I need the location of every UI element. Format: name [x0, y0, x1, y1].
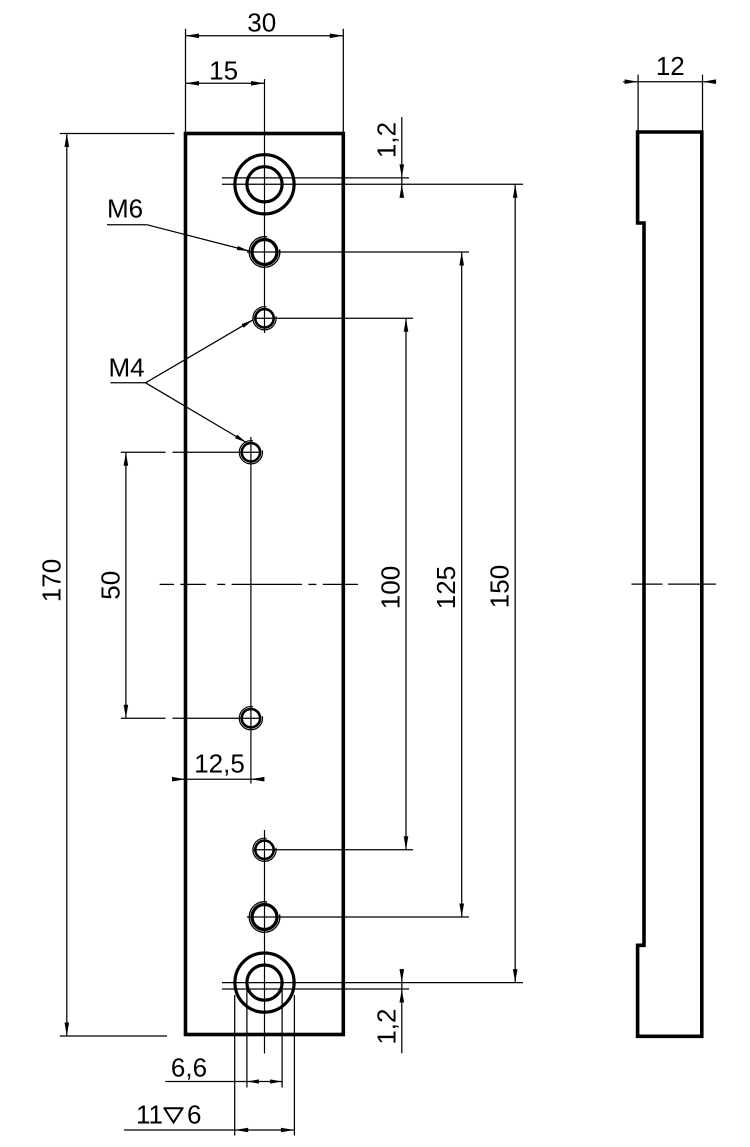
extension line CB1 center	[222, 183, 523, 185]
dimension 50 line	[125, 452, 127, 718]
side view outline with relief groove	[638, 132, 702, 1036]
extension line M6 top center	[247, 251, 469, 253]
extension line 11 right	[293, 995, 295, 1136]
extension line M4 upper center	[253, 317, 413, 319]
extension line 50-dim upper	[121, 451, 166, 453]
tapped hole M4 upper thread arc	[253, 307, 276, 330]
svg-text:12: 12	[656, 51, 685, 81]
extension line M6 bottom center	[247, 916, 469, 918]
dimension 15 line	[186, 82, 265, 84]
center line main hole axis upper	[264, 79, 266, 333]
tapped hole M4 x12.5 upper core circle	[242, 443, 260, 461]
dimension 6,6 line	[165, 1081, 282, 1083]
label M6 leader	[147, 225, 249, 251]
svg-text:M6: M6	[107, 194, 143, 224]
extension line 11 left	[234, 995, 236, 1136]
svg-text:50: 50	[96, 571, 126, 600]
tapped hole M4 x12.5 lower core circle	[242, 709, 260, 727]
depth symbol	[164, 1108, 184, 1122]
tapped hole M6 bottom core circle	[252, 905, 277, 930]
label M4 leader upper	[146, 320, 253, 383]
dimension 1,2 bottom line	[401, 971, 403, 1054]
extension line 30 left	[185, 29, 187, 134]
dimension 12,5 arrows	[172, 777, 186, 782]
dimension 100 arrows	[404, 318, 409, 332]
dimension 125 line	[461, 252, 463, 917]
tapped hole M4 lower core circle	[255, 841, 273, 859]
label M6 leader arrow	[237, 246, 249, 251]
dimension 50 arrows	[124, 452, 129, 466]
dimension 12 line	[623, 81, 716, 83]
svg-text:6: 6	[187, 1100, 201, 1130]
svg-text:30: 30	[247, 8, 276, 38]
svg-text:M4: M4	[109, 353, 145, 383]
dimension 1,2 top line	[401, 117, 403, 198]
front view plate outline	[186, 134, 344, 1035]
extension line 170 top	[60, 133, 175, 135]
dimension 150 line	[514, 184, 516, 982]
label M4 leader upper arrow	[242, 320, 253, 328]
dimension 1,2 top arrows	[400, 164, 405, 178]
extension line 30 right	[342, 29, 344, 134]
label M6 shelf	[107, 224, 147, 226]
tapped hole M4 lower thread arc	[253, 838, 276, 861]
counterbore CB1 outer circle Ø11	[235, 155, 294, 214]
label M4 leader lower arrow	[235, 435, 246, 443]
extension line CB1 offset 1,2	[222, 177, 409, 179]
dimension 11 arrows	[235, 1128, 249, 1133]
center mark side view	[632, 583, 663, 585]
svg-text:15: 15	[209, 55, 238, 85]
extension line 170 bottom	[60, 1035, 167, 1037]
svg-text:11: 11	[136, 1100, 163, 1130]
svg-text:100: 100	[376, 566, 406, 609]
dimension 1,2 bottom arrows	[400, 969, 405, 983]
dimension 6,6 arrows	[247, 1079, 259, 1083]
label M4 leader lower	[146, 383, 247, 443]
extension line 12 right	[702, 75, 704, 131]
tapped hole M4 x12.5 lower thread arc	[239, 707, 262, 730]
dimension 125 arrows	[459, 252, 464, 266]
extension line 6,6 left	[246, 990, 248, 1088]
center line main hole axis lower	[264, 830, 266, 1054]
dimension 150 arrows	[513, 184, 518, 198]
counterbore CB1 drill circle Ø6,6	[247, 167, 282, 202]
dimension 11 line	[124, 1129, 294, 1131]
svg-text:150: 150	[485, 565, 515, 608]
counterbore CB2 outer circle Ø11	[235, 953, 294, 1012]
extension line 50-dim lower	[121, 717, 166, 719]
tapped hole M6 top core circle	[252, 240, 277, 265]
svg-text:170: 170	[37, 559, 67, 602]
svg-text:125: 125	[431, 566, 461, 609]
counterbore CB2 drill circle Ø6,6	[247, 965, 282, 1000]
extension line 6,6 right	[281, 990, 283, 1088]
dimension 170 arrows	[65, 134, 70, 148]
tapped hole M6 top thread arc	[249, 237, 280, 268]
extension line 12 left	[637, 75, 639, 131]
dimension 30 line	[186, 35, 344, 37]
extension line M4 lower center	[253, 849, 413, 851]
svg-text:6,6: 6,6	[171, 1053, 207, 1083]
svg-text:1,2: 1,2	[372, 122, 402, 158]
svg-text:12,5: 12,5	[194, 749, 245, 779]
crosshair M4 x12.5 upper	[172, 451, 261, 453]
tapped hole M4 x12.5 upper thread arc	[239, 441, 262, 464]
dimension 170 line	[66, 134, 68, 1037]
extension line CB2 center	[222, 982, 523, 984]
dimension 15 arrows	[186, 81, 200, 86]
dimension 12,5 line	[173, 778, 264, 780]
tapped hole M6 bottom thread arc	[249, 902, 280, 933]
dimension 100 line	[405, 318, 407, 850]
svg-text:1,2: 1,2	[372, 1009, 402, 1045]
crosshair M4 x12.5 lower	[172, 717, 261, 719]
extension line CB2 offset 1,2	[222, 988, 409, 990]
center line lower hole axis x=12.5	[250, 437, 252, 784]
tapped hole M4 upper core circle	[255, 309, 273, 327]
center mark front view	[160, 583, 358, 585]
dimension 12 arrows	[625, 79, 639, 84]
dimension 30 arrows	[186, 34, 200, 39]
label M4 shelf	[110, 382, 145, 384]
